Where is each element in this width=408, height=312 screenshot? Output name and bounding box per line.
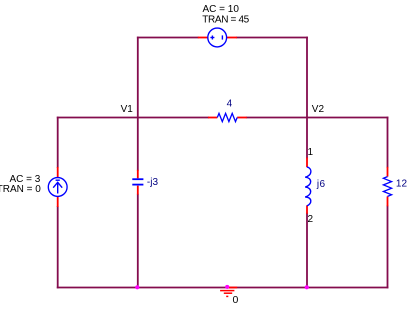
svg-text:-j3: -j3: [147, 177, 159, 188]
svg-text:0: 0: [233, 294, 239, 306]
svg-text:1: 1: [308, 147, 314, 158]
svg-text:j6: j6: [316, 179, 326, 190]
svg-text:4: 4: [227, 99, 233, 110]
svg-text:V1: V1: [121, 104, 134, 115]
svg-text:TRAN = 45: TRAN = 45: [202, 14, 249, 25]
svg-text:12: 12: [396, 179, 408, 190]
svg-text:2: 2: [308, 214, 314, 225]
svg-text:TRAN = 0: TRAN = 0: [0, 184, 41, 195]
svg-text:V2: V2: [312, 104, 325, 115]
